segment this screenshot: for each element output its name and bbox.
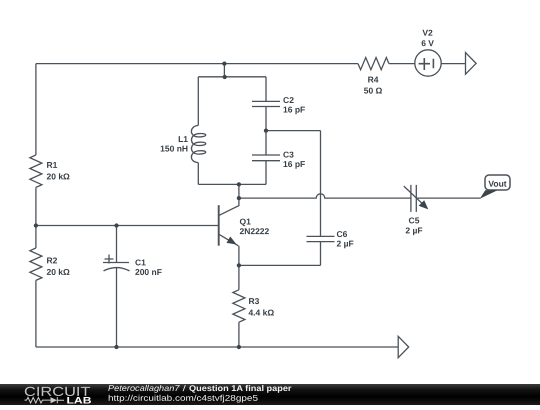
svg-text:R2: R2 <box>46 255 57 265</box>
svg-text:Peterocallaghan7 / Question 1A: Peterocallaghan7 / Question 1A final pap… <box>108 383 292 393</box>
svg-text:L1: L1 <box>178 134 188 144</box>
svg-text:V2: V2 <box>422 28 433 38</box>
svg-text:20 kΩ: 20 kΩ <box>47 171 71 181</box>
svg-text:LAB: LAB <box>66 395 91 405</box>
svg-text:C3: C3 <box>283 150 294 160</box>
svg-text:16 pF: 16 pF <box>283 159 305 169</box>
svg-text:Q1: Q1 <box>239 216 251 226</box>
svg-text:6 V: 6 V <box>421 38 434 48</box>
svg-text:2 µF: 2 µF <box>405 225 422 235</box>
svg-text:C6: C6 <box>336 229 347 239</box>
svg-text:200 nF: 200 nF <box>135 267 162 277</box>
svg-text:16 pF: 16 pF <box>283 105 305 115</box>
svg-text:50 Ω: 50 Ω <box>364 86 383 96</box>
svg-text:C5: C5 <box>409 215 420 225</box>
svg-text:C2: C2 <box>283 95 294 105</box>
svg-text:2N2222: 2N2222 <box>239 226 269 236</box>
svg-text:4.4 kΩ: 4.4 kΩ <box>248 307 274 317</box>
svg-text:R1: R1 <box>47 160 58 170</box>
svg-text:2 µF: 2 µF <box>336 239 353 249</box>
svg-text:C1: C1 <box>135 257 146 267</box>
svg-text:150 nH: 150 nH <box>160 143 188 153</box>
svg-text:20 kΩ: 20 kΩ <box>46 267 70 277</box>
svg-text:R4: R4 <box>368 75 379 85</box>
svg-text:R3: R3 <box>248 296 259 306</box>
svg-text:http://circuitlab.com/c4stvfj2: http://circuitlab.com/c4stvfj28gpe5 <box>108 393 258 403</box>
svg-text:Vout: Vout <box>488 179 506 189</box>
